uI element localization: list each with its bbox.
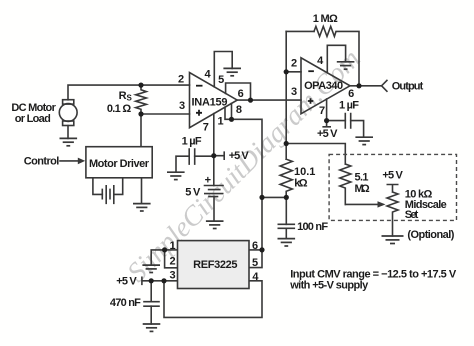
wire: node to 100nF bbox=[262, 197, 286, 224]
svg-text:1 µF: 1 µF bbox=[339, 100, 359, 112]
svg-text:5.1: 5.1 bbox=[355, 172, 369, 184]
svg-text:RS: RS bbox=[119, 90, 133, 102]
svg-text:6: 6 bbox=[348, 88, 354, 100]
svg-text:7: 7 bbox=[319, 105, 325, 117]
wire: C4 to ground bbox=[150, 306, 152, 324]
ground: C2 bbox=[355, 137, 373, 144]
svg-text:470 nF: 470 nF bbox=[110, 297, 141, 309]
capacitor C4 470nF plates bbox=[144, 302, 159, 307]
wire: driver battery right bbox=[114, 178, 123, 195]
svg-text:4: 4 bbox=[252, 271, 259, 283]
capacitor C2 1uF plates bbox=[345, 114, 350, 128]
ground: C3 bbox=[278, 239, 296, 246]
resistor R1 1M bbox=[314, 26, 359, 85]
svg-text:Motor Driver: Motor Driver bbox=[89, 158, 150, 170]
control arrow bbox=[60, 160, 78, 162]
wire: C1 left to ground bbox=[176, 156, 189, 172]
wire: REF3225 pin 5 bbox=[249, 250, 262, 268]
svg-text:3: 3 bbox=[170, 269, 176, 281]
wire: rail to optional box bbox=[286, 144, 345, 165]
wire: OPA340 pin 7 bbox=[326, 99, 328, 121]
ground: REF pins 1/2 bbox=[142, 265, 160, 272]
wire: +5V to REF3225 pin 3 bbox=[142, 277, 178, 284]
svg-text:OPA340: OPA340 bbox=[304, 80, 343, 92]
op-amp U1 INA159 triangle bbox=[190, 73, 238, 128]
svg-text:3: 3 bbox=[179, 100, 185, 112]
wiper arrowhead bbox=[378, 201, 386, 207]
svg-text:4: 4 bbox=[204, 69, 211, 81]
svg-text:4: 4 bbox=[317, 55, 324, 67]
svg-text:2: 2 bbox=[291, 58, 297, 70]
ground: battery 5V bbox=[206, 221, 224, 228]
ground: motor bbox=[60, 138, 78, 145]
svg-text:with +5-V supply: with +5-V supply bbox=[289, 280, 369, 292]
svg-text:+5 V: +5 V bbox=[229, 150, 250, 162]
wire: REF3225 pin 6 bbox=[249, 249, 262, 251]
svg-text:Output: Output bbox=[392, 81, 424, 93]
svg-text:10.1: 10.1 bbox=[294, 166, 315, 178]
ground: driver bbox=[133, 204, 151, 211]
resistor R_S 0.1 ohm bbox=[136, 85, 147, 114]
junction dots bbox=[138, 83, 143, 88]
wire: battery to ground bbox=[213, 197, 215, 222]
svg-text:100 nF: 100 nF bbox=[297, 221, 328, 233]
feedback top wire bbox=[286, 30, 314, 32]
svg-text:5: 5 bbox=[252, 257, 258, 269]
wire: pins 1/8 to REF3225 pin 6 rail bbox=[232, 119, 263, 250]
wire: motor top to INA159 pin 2 net bbox=[68, 85, 190, 100]
wire: +5V node down to battery bbox=[213, 156, 215, 186]
op-amp input polarity marks bbox=[196, 71, 314, 116]
svg-text:1 µF: 1 µF bbox=[182, 135, 202, 147]
wire: C3 to ground bbox=[285, 228, 287, 238]
svg-text:DC Motor: DC Motor bbox=[11, 102, 56, 114]
wire: REF3225 pin 4 loop to +5V bbox=[164, 281, 262, 318]
output chevron bbox=[382, 80, 387, 91]
potentiometer R4 10k bbox=[387, 185, 398, 237]
svg-text:8: 8 bbox=[236, 104, 242, 116]
svg-text:+: + bbox=[205, 175, 211, 187]
svg-text:5 V: 5 V bbox=[185, 187, 201, 199]
wire: pins 1/2 to ground bbox=[151, 250, 164, 265]
svg-text:1 MΩ: 1 MΩ bbox=[313, 13, 338, 25]
svg-text:(Optional): (Optional) bbox=[407, 229, 454, 241]
ground: INA159 pin5 bbox=[223, 68, 241, 75]
wire: R_S bottom to motor driver bbox=[140, 114, 142, 147]
wire: INA159 pin 8 bbox=[231, 103, 233, 119]
svg-text:3: 3 bbox=[291, 86, 297, 98]
wire: INA159 pin 7 to +5V node bbox=[213, 114, 215, 156]
wire: OPA340 pin 2 bbox=[286, 71, 301, 73]
svg-text:+5 V: +5 V bbox=[382, 169, 403, 181]
resistor R3 5.1M bbox=[340, 164, 351, 204]
svg-text:+5 V: +5 V bbox=[116, 275, 137, 287]
wire: REF3225 pin 1 bbox=[165, 249, 178, 251]
ground: OPA340 pin4 bbox=[337, 62, 355, 69]
svg-text:7: 7 bbox=[203, 121, 209, 133]
battery B1 plates bbox=[102, 186, 114, 204]
op-amp U2 OPA340 triangle bbox=[301, 58, 350, 114]
motor driver box bbox=[86, 147, 152, 178]
svg-text:MΩ: MΩ bbox=[355, 183, 370, 195]
feedback rail upper bbox=[285, 31, 287, 159]
IC REF3225 box bbox=[178, 241, 250, 289]
+5V stub at OPA340 bbox=[323, 121, 330, 127]
wire: motor bottom to ground bbox=[67, 126, 69, 139]
dashed optional box bbox=[329, 154, 456, 220]
wire: OPA340 pin 4 to ground bbox=[327, 45, 345, 73]
svg-text:+5 V: +5 V bbox=[317, 128, 338, 140]
wire: INA159 pin 4 to ground bbox=[214, 52, 232, 87]
svg-text:6: 6 bbox=[252, 240, 258, 252]
svg-text:1: 1 bbox=[218, 116, 224, 128]
svg-text:REF3225: REF3225 bbox=[193, 259, 237, 271]
svg-text:5: 5 bbox=[218, 74, 224, 86]
svg-text:Set: Set bbox=[405, 209, 419, 221]
ground: C1 bbox=[167, 172, 185, 179]
ground: C4 bbox=[143, 324, 161, 331]
svg-text:or Load: or Load bbox=[15, 113, 51, 125]
svg-text:6: 6 bbox=[238, 88, 244, 100]
wire: R_S bottom to INA159 pin 3 bbox=[141, 113, 190, 115]
battery B2 5V plates bbox=[205, 186, 224, 197]
dc motor symbol bbox=[59, 104, 77, 122]
wire: C2 to ground bbox=[351, 121, 364, 138]
svg-text:1: 1 bbox=[169, 240, 175, 252]
wire: REF3225 pin 2 bbox=[165, 250, 178, 268]
capacitor C3 100nF plates bbox=[278, 224, 294, 228]
wire: INA159 pin 1 bbox=[225, 107, 232, 119]
svg-text:0.1 Ω: 0.1 Ω bbox=[107, 103, 131, 115]
control arrowhead bbox=[78, 158, 85, 165]
wire: output bbox=[350, 85, 382, 87]
wire: pin7 to C2 bbox=[327, 120, 346, 122]
wire: C1 right to pin7 node bbox=[195, 155, 214, 157]
capacitor C1 1uF plates bbox=[189, 149, 195, 164]
ground: potentiometer bbox=[382, 236, 404, 244]
svg-text:kΩ: kΩ bbox=[294, 178, 308, 190]
wire: wiper arrow bbox=[345, 203, 377, 205]
wire: 470nF branch bbox=[150, 281, 152, 302]
+5V tick at INA159 bbox=[214, 152, 224, 159]
svg-text:INA159: INA159 bbox=[192, 97, 228, 109]
wire: INA159 pin 5 loop to output bbox=[226, 83, 251, 100]
svg-text:2: 2 bbox=[178, 73, 184, 85]
wire: driver battery left bbox=[93, 178, 102, 195]
svg-text:2: 2 bbox=[170, 255, 176, 267]
svg-text:Control: Control bbox=[24, 155, 60, 167]
resistor R2 10.1k bbox=[280, 159, 292, 197]
wire: driver to ground bbox=[141, 178, 143, 204]
wire: INA159 output pin 6 to OPA340 pin 3 bbox=[237, 99, 301, 101]
